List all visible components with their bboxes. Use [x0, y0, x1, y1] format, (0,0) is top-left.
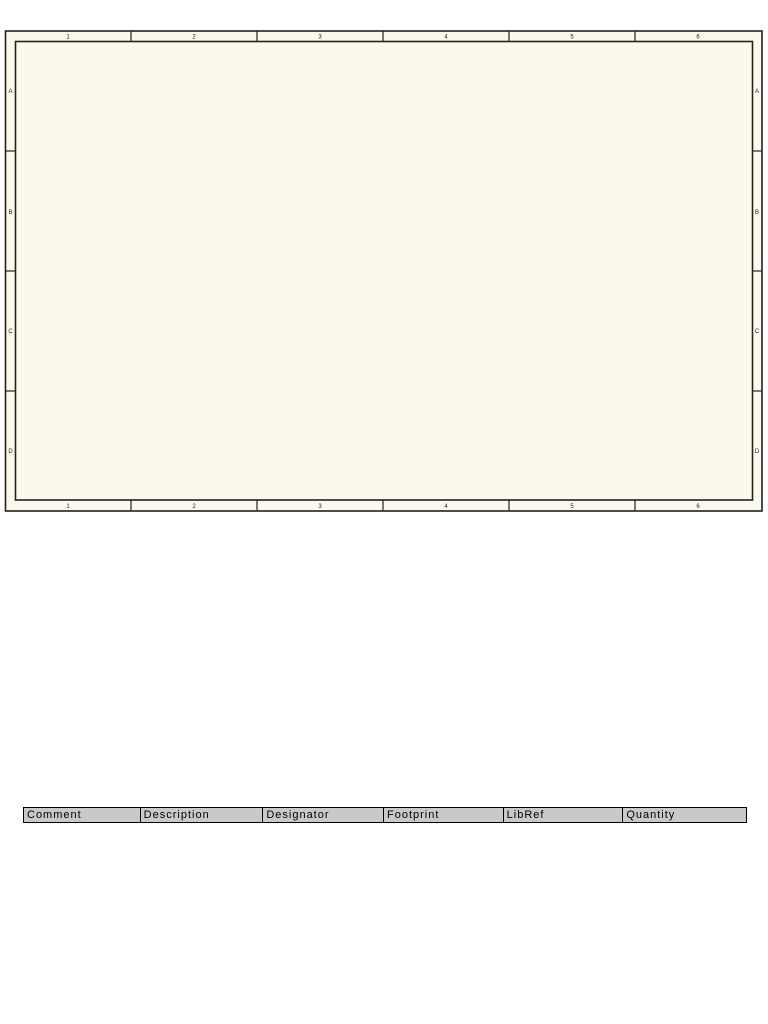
svg-text:A: A: [755, 89, 759, 95]
svg-text:C: C: [8, 329, 13, 335]
svg-text:C: C: [755, 329, 760, 335]
svg-text:D: D: [8, 449, 13, 455]
svg-text:B: B: [755, 210, 759, 216]
svg-text:D: D: [755, 449, 760, 455]
svg-text:B: B: [8, 210, 12, 216]
svg-text:A: A: [8, 89, 12, 95]
